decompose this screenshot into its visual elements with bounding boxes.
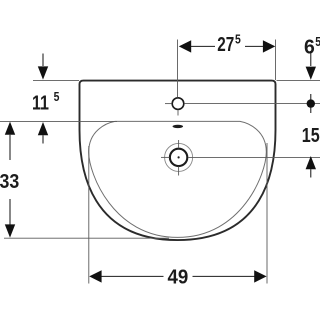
svg-text:6: 6 xyxy=(304,35,315,58)
extension line top edge left xyxy=(33,80,79,82)
svg-text:11: 11 xyxy=(32,91,49,114)
dimension 33 stem lower xyxy=(9,199,11,225)
dimension 15 arrow up (head + stem) xyxy=(306,156,316,169)
extension line top edge right xyxy=(277,80,320,82)
dimension 33 arrow up at rim back line xyxy=(5,122,15,135)
dimension 33 arrow down at bowl front line xyxy=(5,224,15,237)
drain tick left xyxy=(161,156,170,158)
overflow slot xyxy=(173,125,184,128)
svg-text:5: 5 xyxy=(235,32,241,47)
drain tick bottom xyxy=(178,167,180,176)
dimension 49 extension line left xyxy=(88,146,90,284)
bowl front tangent line (33 dimension bottom) xyxy=(4,237,169,239)
faucet hole xyxy=(172,98,184,110)
drain outer circle xyxy=(165,143,193,171)
dimension 49 line left segment xyxy=(101,275,164,277)
dimension 27.5 line left segment xyxy=(189,45,215,47)
dimension 27.5 arrow right xyxy=(263,40,275,52)
dimension 49 arrow right xyxy=(254,270,266,282)
dimension 27.5 arrow left xyxy=(179,40,191,52)
dimension 49 arrow left xyxy=(89,270,101,282)
drain inner circle xyxy=(170,149,187,166)
dimension 49 line right segment xyxy=(193,275,256,277)
faucet hole tick bottom xyxy=(177,110,179,115)
dimension 27.5 extension line at basin right corner xyxy=(275,40,277,81)
svg-text:15: 15 xyxy=(302,124,320,147)
dimension 27.5 line right segment xyxy=(245,45,267,47)
dimension 11.5 arrow down above top edge xyxy=(42,54,44,67)
dimension 6.5 arrow down (stem + head) xyxy=(310,51,312,66)
svg-text:27: 27 xyxy=(217,33,234,56)
drain center dot xyxy=(178,156,180,158)
dimension 49 extension line right xyxy=(266,143,268,284)
dimension 33 stem upper xyxy=(9,135,11,160)
faucet centerline to right edge xyxy=(185,103,320,105)
svg-text:33: 33 xyxy=(0,170,19,193)
svg-text:5: 5 xyxy=(54,89,60,104)
faucet hole tick left xyxy=(165,103,171,105)
washbasin outer outline xyxy=(80,81,276,241)
dimension 11.5 arrow up below rim line xyxy=(38,122,48,135)
svg-text:49: 49 xyxy=(168,265,189,288)
drain centerline to right edge xyxy=(188,156,320,158)
dimension 6.5/15 shared dot terminator xyxy=(310,94,312,113)
svg-text:5: 5 xyxy=(315,34,320,49)
dimension 27.5 extension line at faucet center xyxy=(177,40,179,98)
rim back line (11.5 dimension line) xyxy=(0,120,117,122)
washbasin inner rim (bowl edge) xyxy=(89,121,267,237)
drain tick top xyxy=(178,140,180,148)
